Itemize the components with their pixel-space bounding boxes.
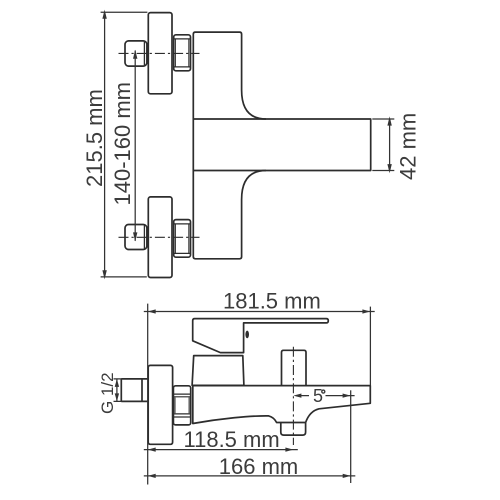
svg-text:5: 5: [313, 386, 323, 406]
svg-text:215.5 mm: 215.5 mm: [82, 89, 107, 187]
svg-text:G 1/2: G 1/2: [98, 372, 117, 414]
svg-text:140-160 mm: 140-160 mm: [110, 82, 135, 206]
svg-text:181.5 mm: 181.5 mm: [223, 288, 321, 313]
svg-text:118.5 mm: 118.5 mm: [184, 427, 280, 452]
svg-text:42 mm: 42 mm: [396, 113, 421, 180]
svg-text:166 mm: 166 mm: [219, 454, 298, 479]
